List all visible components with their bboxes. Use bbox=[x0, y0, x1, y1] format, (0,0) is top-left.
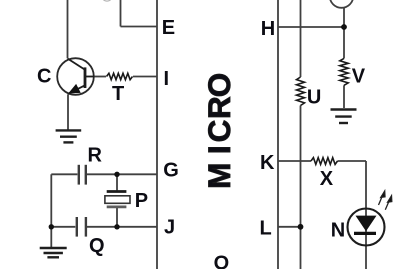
svg-text:I: I bbox=[201, 145, 237, 154]
svg-text:R: R bbox=[88, 145, 103, 167]
svg-text:C: C bbox=[201, 120, 237, 143]
svg-text:X: X bbox=[320, 168, 334, 190]
svg-text:Q: Q bbox=[89, 235, 105, 257]
svg-text:M: M bbox=[201, 163, 237, 189]
svg-text:U: U bbox=[307, 87, 321, 109]
svg-text:L: L bbox=[260, 217, 272, 239]
svg-text:P: P bbox=[135, 190, 148, 212]
svg-text:R: R bbox=[201, 96, 237, 119]
svg-text:E: E bbox=[162, 17, 175, 39]
svg-text:N: N bbox=[331, 220, 345, 242]
svg-text:K: K bbox=[260, 152, 275, 174]
svg-text:C: C bbox=[37, 66, 51, 88]
svg-text:O: O bbox=[214, 253, 230, 269]
svg-text:J: J bbox=[164, 217, 175, 239]
svg-text:O: O bbox=[201, 73, 237, 98]
svg-text:T: T bbox=[112, 83, 124, 105]
svg-text:V: V bbox=[352, 66, 366, 88]
svg-text:H: H bbox=[261, 18, 275, 40]
svg-text:I: I bbox=[164, 68, 170, 90]
svg-text:G: G bbox=[163, 159, 179, 181]
